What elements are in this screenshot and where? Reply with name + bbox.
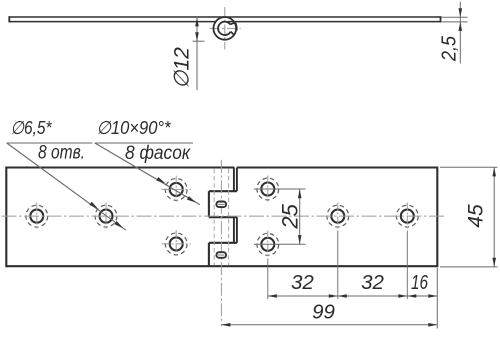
svg-text:25: 25 <box>278 203 303 229</box>
svg-text:32: 32 <box>361 271 384 294</box>
svg-text:99: 99 <box>312 301 335 324</box>
svg-text:∅6,5*: ∅6,5* <box>11 117 53 138</box>
svg-text:32: 32 <box>291 271 314 294</box>
svg-text:∅10×90°*: ∅10×90°* <box>97 117 172 138</box>
svg-text:8 фасок: 8 фасок <box>125 143 191 164</box>
svg-text:2,5: 2,5 <box>439 35 461 62</box>
svg-text:8 отв.: 8 отв. <box>38 143 85 164</box>
svg-text:∅12: ∅12 <box>171 47 194 89</box>
svg-text:45: 45 <box>465 204 488 228</box>
svg-text:16: 16 <box>411 271 428 294</box>
